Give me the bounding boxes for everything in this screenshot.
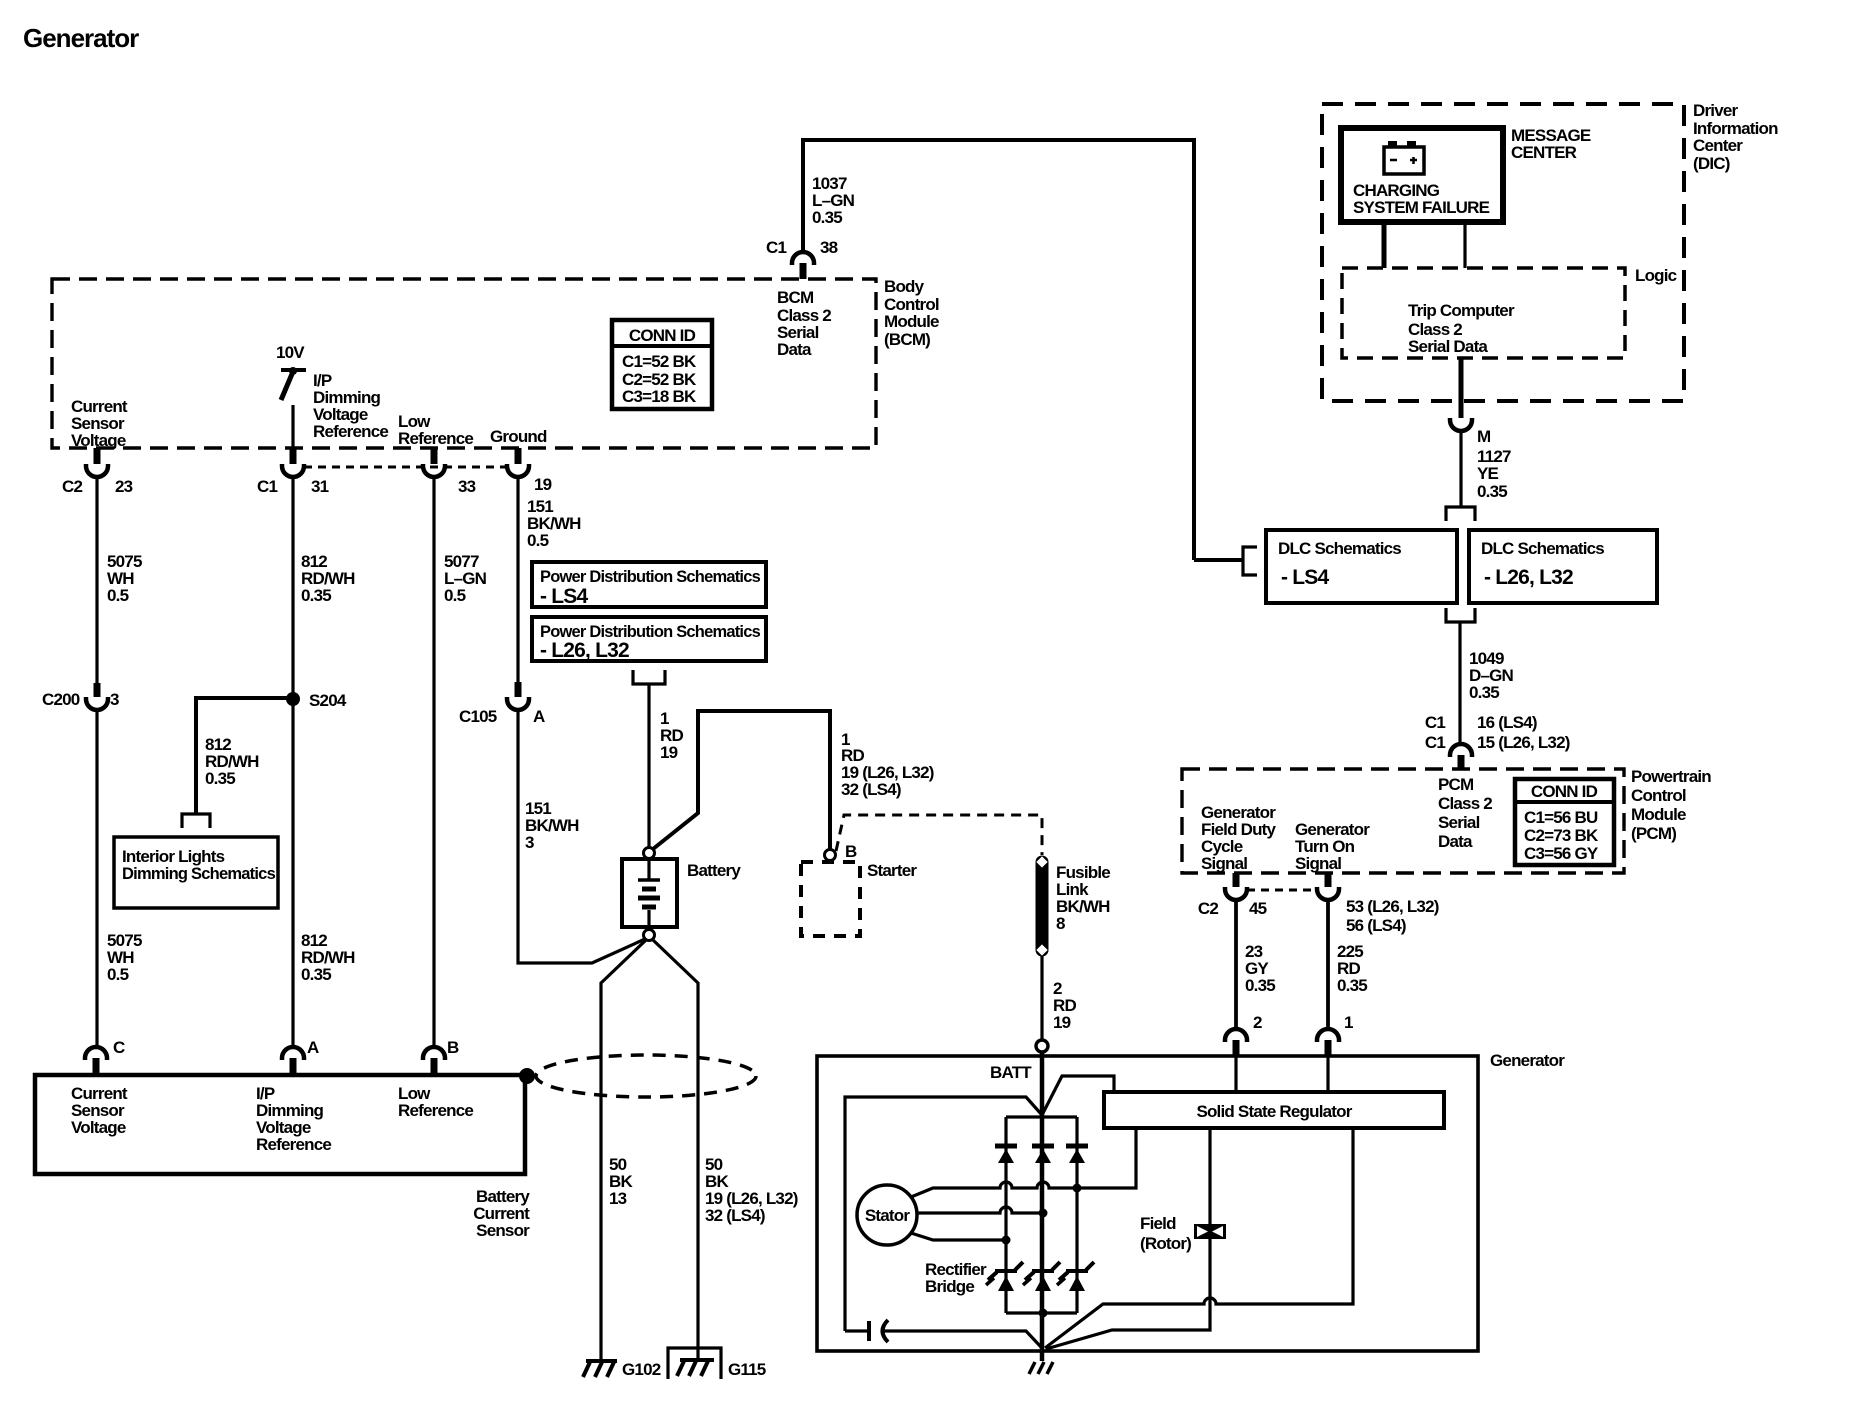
- svg-text:Reference: Reference: [313, 422, 388, 441]
- svg-text:CENTER: CENTER: [1511, 143, 1577, 162]
- stator circle: [857, 1185, 917, 1245]
- generator BATT terminal circle: [1036, 1040, 1048, 1052]
- svg-text:0.5: 0.5: [107, 965, 129, 984]
- svg-text:S204: S204: [309, 691, 347, 710]
- svg-text:15 (L26, L32): 15 (L26, L32): [1477, 733, 1570, 752]
- svg-text:0.5: 0.5: [444, 586, 466, 605]
- label 23 GY 0.35: [1245, 942, 1275, 995]
- svg-text:(Rotor): (Rotor): [1140, 1234, 1191, 1253]
- battery negative terminal circle: [644, 930, 655, 941]
- svg-text:0.35: 0.35: [301, 965, 331, 984]
- svg-text:C2: C2: [1198, 899, 1218, 918]
- svg-text:Voltage: Voltage: [71, 431, 126, 450]
- PCM pin stub C2-45: [1233, 873, 1240, 887]
- svg-text:0.5: 0.5: [107, 586, 129, 605]
- wire generator pin 2 to regulator: [1234, 1057, 1237, 1092]
- label 812 RD/WH 0.35 upper: [301, 552, 355, 605]
- wire 1 RD 19 to battery: [647, 684, 650, 847]
- junction dot bottom bus: [1039, 1309, 1048, 1318]
- connector dome 2 into generator: [1225, 1029, 1247, 1057]
- label Low Reference: [398, 412, 473, 448]
- label Power Distribution Schematics LS4: [540, 567, 760, 608]
- svg-text:Body: Body: [884, 277, 925, 296]
- wire message center right to logic: [1463, 222, 1466, 268]
- wire message center left to logic: [1382, 222, 1387, 268]
- connector C1-38 dome into BCM: [792, 252, 814, 265]
- svg-text:31: 31: [311, 477, 329, 496]
- bracket below power distribution boxes: [633, 670, 665, 684]
- label Body Control Module (BCM): [884, 277, 939, 349]
- CONN ID table (BCM): [612, 320, 712, 409]
- svg-text:CONN ID: CONN ID: [629, 326, 696, 345]
- wire PCM field duty into generator: [1234, 900, 1238, 1029]
- svg-text:23: 23: [115, 477, 133, 496]
- svg-text:BATT: BATT: [990, 1063, 1032, 1082]
- wire regulator to field: [1046, 1128, 1210, 1349]
- ground below generator: [1029, 1362, 1053, 1374]
- svg-text:0.35: 0.35: [1477, 482, 1507, 501]
- label 151 BK/WH 3: [525, 799, 579, 852]
- field rotor symbol: [1194, 1224, 1226, 1239]
- wire regulator right to ground: [1045, 1128, 1353, 1348]
- svg-text:Powertrain: Powertrain: [1631, 767, 1711, 786]
- label C1 C1 (PCM pins): [1425, 713, 1445, 752]
- label CHARGING SYSTEM FAILURE: [1353, 181, 1490, 217]
- svg-text:DLC Schematics: DLC Schematics: [1481, 539, 1604, 558]
- svg-text:Center: Center: [1693, 136, 1743, 155]
- wire 2 RD 19: [1040, 956, 1043, 1040]
- svg-text:19: 19: [1053, 1013, 1071, 1032]
- battery telltale icon: [1384, 141, 1424, 174]
- svg-text:PCM: PCM: [1438, 775, 1474, 794]
- box Generator: [817, 1056, 1478, 1351]
- svg-text:Dimming Schematics: Dimming Schematics: [122, 864, 275, 883]
- CONN ID table (PCM): [1515, 779, 1614, 865]
- svg-text:0.35: 0.35: [1469, 683, 1499, 702]
- label Interior Lights Dimming Schematics: [122, 847, 275, 883]
- box Power Distribution Schematics L26 L32: [532, 617, 766, 661]
- svg-text:19: 19: [534, 475, 552, 494]
- label 1037 L-GN 0.35: [812, 174, 855, 227]
- svg-text:A: A: [533, 707, 545, 726]
- label 225 RD 0.35: [1337, 942, 1367, 995]
- svg-text:Data: Data: [777, 340, 812, 359]
- svg-text:Logic: Logic: [1635, 266, 1677, 285]
- label MESSAGE CENTER: [1511, 126, 1591, 162]
- label 5075 WH 0.5 upper: [107, 552, 142, 605]
- wire PCM turn on into generator: [1326, 900, 1330, 1029]
- BCM pin stub 33: [431, 448, 438, 464]
- diode top left: [995, 1146, 1017, 1163]
- wire 1037 L-GN from BCM C1 up and over to DLC: [803, 140, 1194, 560]
- label BCM Class 2 Serial Data: [777, 288, 831, 359]
- splice S204: [286, 692, 300, 706]
- junction dot sensor corner: [519, 1068, 535, 1084]
- dashed connector link C2 pins: [1247, 889, 1317, 892]
- box Starter dashed: [801, 862, 860, 936]
- svg-text:Reference: Reference: [256, 1135, 331, 1154]
- svg-text:B: B: [845, 842, 857, 861]
- svg-text:13: 13: [609, 1189, 627, 1208]
- label Battery Current Sensor: [473, 1187, 530, 1240]
- svg-text:Power Distribution Schematics: Power Distribution Schematics: [540, 567, 760, 586]
- bracket to Interior Lights box: [182, 814, 210, 828]
- svg-text:1: 1: [1344, 1013, 1353, 1032]
- wire 1049 D-GN: [1458, 622, 1461, 744]
- wire 5075 WH lower: [95, 710, 98, 1046]
- svg-text:YE: YE: [1477, 464, 1499, 483]
- svg-text:Voltage: Voltage: [71, 1118, 126, 1137]
- label PCM Class 2 Serial Data: [1438, 775, 1492, 851]
- svg-text:Reference: Reference: [398, 429, 473, 448]
- svg-text:0.35: 0.35: [301, 586, 331, 605]
- connector cup C1-31: [282, 464, 304, 477]
- svg-text:33: 33: [458, 477, 476, 496]
- svg-text:Control: Control: [1631, 786, 1686, 805]
- svg-text:- LS4: - LS4: [540, 585, 588, 608]
- connector dome 1 into generator: [1317, 1029, 1339, 1057]
- junction dot phase1 right rail: [1073, 1184, 1082, 1193]
- svg-text:0.35: 0.35: [1245, 976, 1275, 995]
- svg-text:SYSTEM FAILURE: SYSTEM FAILURE: [1353, 198, 1490, 217]
- dashed connector link C1 pins: [304, 466, 507, 469]
- box DLC Schematics LS4: [1266, 530, 1457, 603]
- svg-text:Trip Computer: Trip Computer: [1408, 301, 1515, 320]
- svg-text:8: 8: [1056, 914, 1065, 933]
- wire inner left rail to BATT rail: [845, 1097, 1042, 1331]
- label DLC Schematics L26 L32: [1481, 539, 1604, 589]
- svg-text:56 (LS4): 56 (LS4): [1346, 916, 1406, 935]
- wire I/P dimming voltage reference inside BCM: [291, 405, 294, 448]
- svg-text:Data: Data: [1438, 832, 1473, 851]
- svg-text:DLC Schematics: DLC Schematics: [1278, 539, 1401, 558]
- label Power Distribution Schematics L26 L32: [540, 622, 760, 662]
- svg-text:3: 3: [525, 833, 534, 852]
- wire segment to DLC LS4 bracket: [1194, 558, 1242, 562]
- BCM pin stub 19: [515, 448, 522, 464]
- diode top right: [1066, 1146, 1088, 1163]
- label I/P Dimming Voltage Reference (sensor): [256, 1084, 331, 1154]
- wire 812 RD/WH lower: [291, 699, 294, 1046]
- svg-text:0.35: 0.35: [205, 769, 235, 788]
- ground G115: [677, 1360, 714, 1376]
- svg-text:19: 19: [660, 743, 678, 762]
- svg-text:Module: Module: [1631, 805, 1686, 824]
- svg-text:38: 38: [820, 238, 838, 257]
- wire generator BATT rail: [1040, 1052, 1045, 1361]
- box Driver Information Center dashed: [1322, 104, 1684, 401]
- label I/P Dimming Voltage Reference: [313, 371, 388, 441]
- junction dot phase2 BATT rail: [1039, 1209, 1048, 1218]
- svg-text:Field: Field: [1140, 1214, 1176, 1233]
- svg-text:Bridge: Bridge: [925, 1277, 974, 1296]
- svg-text:(DIC): (DIC): [1693, 154, 1730, 173]
- svg-text:Battery: Battery: [687, 861, 741, 880]
- battery cell plates: [638, 859, 660, 927]
- label 53 (L26 L32) 56 (LS4): [1346, 897, 1439, 935]
- svg-text:(BCM): (BCM): [884, 330, 930, 349]
- svg-text:(PCM): (PCM): [1631, 824, 1676, 843]
- svg-text:- L26, L32: - L26, L32: [1484, 566, 1573, 589]
- label 812 RD/WH 0.35 branch: [205, 735, 259, 788]
- rectifier bottom bus bar: [1006, 1311, 1077, 1314]
- wire 151 BK/WH upper: [516, 477, 519, 682]
- svg-text:Reference: Reference: [398, 1101, 473, 1120]
- svg-text:Signal: Signal: [1201, 854, 1247, 873]
- label 1 RD 19 (L26 L32) 32 (LS4): [841, 730, 934, 799]
- svg-text:Serial Data: Serial Data: [1408, 337, 1488, 356]
- connector dome A into sensor: [282, 1047, 304, 1075]
- box Battery Current Sensor: [35, 1075, 525, 1174]
- connector M inline: [1450, 418, 1472, 431]
- connector cup 19: [507, 464, 529, 477]
- 10V supply switch symbol: [281, 367, 306, 400]
- svg-text:Serial: Serial: [1438, 813, 1480, 832]
- label Rectifier Bridge: [925, 1260, 987, 1296]
- svg-text:32 (LS4): 32 (LS4): [705, 1206, 765, 1225]
- connector dome C1 into PCM: [1450, 744, 1472, 769]
- wire trip computer to connector M: [1459, 358, 1464, 418]
- diode bottom right: [1057, 1262, 1094, 1291]
- label 50 BK 19 (L26 L32) 32 (LS4): [705, 1155, 798, 1225]
- svg-text:- LS4: - LS4: [1281, 566, 1329, 589]
- svg-text:Starter: Starter: [867, 861, 917, 880]
- svg-text:Driver: Driver: [1693, 101, 1739, 120]
- svg-text:G115: G115: [728, 1360, 766, 1379]
- battery positive terminal circle: [644, 848, 655, 859]
- connector dome B into sensor: [423, 1047, 445, 1075]
- dashed wire starter B to fusible link: [836, 815, 1042, 855]
- capacitor symbol: [845, 1320, 1041, 1347]
- label 16 (LS4) 15 (L26 L32): [1477, 713, 1570, 752]
- label Generator Field Duty Cycle Signal: [1201, 803, 1277, 873]
- connector C200-3 inline: [86, 683, 108, 710]
- svg-text:C2: C2: [62, 477, 82, 496]
- svg-text:Stator: Stator: [865, 1206, 911, 1225]
- bracket below DLC boxes: [1446, 608, 1475, 622]
- svg-text:B: B: [447, 1038, 459, 1057]
- svg-text:CONN ID: CONN ID: [1531, 782, 1598, 801]
- svg-text:3: 3: [110, 690, 119, 709]
- label 5075 WH 0.5 lower: [107, 931, 142, 984]
- label 151 BK/WH 0.5: [527, 497, 581, 550]
- svg-text:M: M: [1477, 427, 1491, 446]
- rectifier right rail: [1075, 1117, 1078, 1313]
- label Driver Information Center (DIC): [1693, 101, 1778, 173]
- label 50 BK 13: [609, 1155, 633, 1208]
- svg-text:2: 2: [1253, 1013, 1262, 1032]
- label Current Sensor Voltage (sensor): [71, 1084, 128, 1137]
- svg-text:A: A: [307, 1038, 319, 1057]
- label 1127 YE 0.35: [1477, 447, 1511, 501]
- dashed harness ellipse: [536, 1055, 756, 1097]
- wire battery positive to starter B: [653, 711, 830, 849]
- svg-text:C: C: [113, 1038, 125, 1057]
- rectifier top bus bar: [1006, 1115, 1077, 1118]
- connector cup C2-45: [1225, 887, 1247, 900]
- svg-text:Signal: Signal: [1295, 854, 1341, 873]
- wire 1127 YE: [1459, 431, 1462, 506]
- bracket above DLC boxes: [1446, 507, 1475, 521]
- diode bottom left: [986, 1262, 1023, 1291]
- wire battery negative to ground G102: [601, 940, 646, 1361]
- svg-text:32 (LS4): 32 (LS4): [841, 780, 901, 799]
- box Powertrain Control Module dashed: [1182, 769, 1624, 873]
- svg-text:C3=56 GY: C3=56 GY: [1524, 844, 1599, 863]
- box Message Center: [1341, 128, 1503, 222]
- diode top middle: [1032, 1146, 1054, 1163]
- box Interior Lights Dimming Schematics: [114, 837, 278, 908]
- svg-text:10V: 10V: [276, 343, 305, 362]
- label Low Reference (sensor): [398, 1084, 473, 1120]
- label Current Sensor Voltage (BCM): [71, 397, 128, 450]
- wire battery negative to ground G115: [653, 940, 698, 1360]
- wire 151 BK/WH lower to battery negative: [518, 710, 645, 963]
- svg-text:- L26, L32: - L26, L32: [540, 639, 629, 662]
- svg-text:Generator: Generator: [1490, 1051, 1565, 1070]
- bracket into DLC LS4 box: [1243, 547, 1257, 575]
- box Solid State Regulator: [1104, 1092, 1444, 1128]
- stator phase wire 2: [917, 1207, 1043, 1213]
- box DLC Schematics L26 L32: [1469, 530, 1657, 603]
- ground G102: [583, 1361, 617, 1377]
- PCM pin stub 53: [1325, 873, 1332, 887]
- svg-text:C2=73 BK: C2=73 BK: [1524, 826, 1599, 845]
- svg-text:53 (L26, L32): 53 (L26, L32): [1346, 897, 1439, 916]
- battery box: [622, 859, 677, 927]
- wire generator pin 1 to regulator: [1326, 1057, 1329, 1092]
- svg-text:C1: C1: [766, 238, 786, 257]
- wire 5075 WH upper: [95, 477, 98, 683]
- svg-text:0.5: 0.5: [527, 531, 549, 550]
- label Trip Computer Class 2 Serial Data: [1408, 301, 1515, 356]
- label 1049 D-GN 0.35: [1469, 649, 1514, 702]
- svg-text:0.35: 0.35: [812, 208, 842, 227]
- svg-text:C200: C200: [42, 690, 80, 709]
- label 1 RD 19: [660, 709, 683, 762]
- rectifier left rail: [1004, 1117, 1007, 1313]
- svg-text:C3=18 BK: C3=18 BK: [622, 387, 697, 406]
- svg-text:Solid State Regulator: Solid State Regulator: [1196, 1102, 1352, 1121]
- wire branch to interior lights: [196, 698, 293, 813]
- BCM pin stub C1-31: [290, 448, 297, 464]
- svg-text:BCM: BCM: [777, 288, 814, 307]
- label Field (Rotor): [1140, 1214, 1191, 1253]
- box Power Distribution Schematics LS4: [532, 562, 766, 607]
- svg-text:Class 2: Class 2: [1438, 794, 1492, 813]
- svg-text:C105: C105: [459, 707, 497, 726]
- connector C105-A inline: [507, 682, 529, 710]
- connector cup C2-23: [86, 464, 108, 477]
- svg-text:C1: C1: [257, 477, 277, 496]
- svg-text:16 (LS4): 16 (LS4): [1477, 713, 1537, 732]
- svg-text:Module: Module: [884, 312, 939, 331]
- wire 5077 L-GN: [432, 477, 435, 1046]
- svg-text:C1: C1: [1425, 713, 1445, 732]
- label 5077 L-GN 0.5: [444, 552, 487, 605]
- svg-text:C1=52 BK: C1=52 BK: [622, 352, 697, 371]
- svg-text:Generator: Generator: [23, 23, 139, 53]
- label Powertrain Control Module (PCM): [1631, 767, 1711, 843]
- connector cup 53: [1317, 887, 1339, 900]
- svg-text:0.35: 0.35: [1337, 976, 1367, 995]
- svg-text:45: 45: [1249, 899, 1267, 918]
- wire 812 RD/WH upper: [291, 477, 294, 699]
- starter B terminal circle: [825, 850, 836, 861]
- wire BATT rail to regulator feed: [1042, 1076, 1114, 1115]
- connector dome C into sensor: [85, 1047, 107, 1075]
- BCM pin stub C2-23: [94, 448, 101, 464]
- label 812 RD/WH 0.35 lower: [301, 931, 355, 984]
- label 2 RD 19: [1053, 979, 1076, 1032]
- svg-text:Sensor: Sensor: [476, 1221, 530, 1240]
- BCM dashed box (Body Control Module): [52, 279, 876, 448]
- fusible link BK/WH 8: [1036, 856, 1047, 955]
- stator phase wire 1: [911, 1128, 1136, 1197]
- junction dot phase3 left rail: [1002, 1236, 1011, 1245]
- box Trip Computer dashed: [1342, 268, 1625, 358]
- svg-text:C1=56 BU: C1=56 BU: [1524, 808, 1598, 827]
- svg-text:Ground: Ground: [490, 427, 547, 446]
- label Fusible Link BK/WH 8: [1056, 863, 1110, 933]
- label Generator Turn On Signal: [1295, 820, 1370, 873]
- svg-text:G102: G102: [622, 1360, 661, 1379]
- svg-text:C1: C1: [1425, 733, 1445, 752]
- stator phase wire 3: [911, 1233, 1006, 1240]
- ground G115 connector bracket: [668, 1348, 721, 1379]
- diode bottom middle: [1023, 1262, 1060, 1291]
- connector cup 33: [423, 464, 445, 477]
- label DLC Schematics LS4: [1278, 539, 1401, 589]
